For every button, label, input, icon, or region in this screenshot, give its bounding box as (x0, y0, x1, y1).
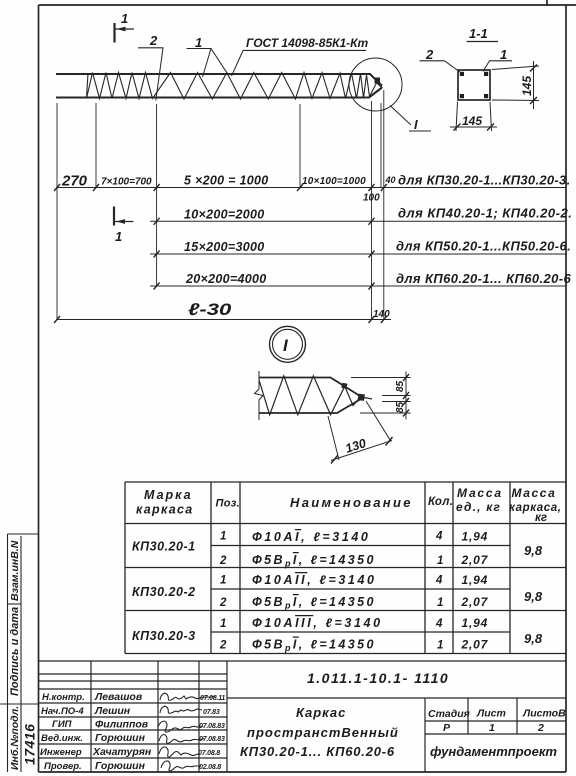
svg-text:17416: 17416 (22, 724, 38, 765)
svg-text:Хачатурян: Хачатурян (92, 746, 152, 758)
svg-text:Ф10АIII, ℓ=3140: Ф10АIII, ℓ=3140 (252, 616, 383, 630)
detail I small weld square on taper (341, 383, 347, 389)
svg-text:ГИП: ГИП (52, 719, 72, 730)
svg-text:1: 1 (195, 35, 202, 50)
svg-text:1: 1 (220, 618, 226, 630)
svg-text:ℓ-30: ℓ-30 (188, 300, 231, 319)
svg-text:Ф5ВрI, ℓ=14350: Ф5ВрI, ℓ=14350 (252, 595, 376, 611)
svg-text:для КП40.20-1; КП40.20-2.: для КП40.20-1; КП40.20-2. (398, 206, 572, 221)
svg-text:4: 4 (435, 575, 443, 587)
svg-text:10×100=1000: 10×100=1000 (302, 176, 366, 187)
svg-text:2: 2 (219, 597, 227, 609)
svg-text:1: 1 (437, 555, 443, 567)
svg-text:145: 145 (520, 76, 534, 96)
svg-text:Подпись и дата: Подпись и дата (9, 607, 21, 696)
overall length dimension line L-30 (57, 319, 391, 321)
svg-text:1: 1 (220, 575, 226, 587)
svg-text:40: 40 (385, 175, 396, 185)
svg-text:пространстВенный: пространстВенный (247, 725, 399, 740)
svg-text:ЛистоВ: ЛистоВ (522, 708, 566, 720)
svg-text:Лист: Лист (476, 708, 506, 720)
spiral hook tip weld blob (375, 78, 381, 84)
svg-text:I: I (414, 117, 418, 132)
section cut mark 1 (top) (115, 23, 135, 43)
svg-text:Масса: Масса (512, 486, 557, 500)
svg-text:Ф10АII, ℓ=3140: Ф10АII, ℓ=3140 (252, 573, 377, 587)
materials table grid (125, 482, 566, 654)
svg-text:1: 1 (115, 229, 122, 244)
svg-text:1: 1 (437, 640, 443, 652)
svg-text:9,8: 9,8 (524, 589, 543, 604)
svg-text:2: 2 (149, 33, 158, 48)
corner bars (dots) (460, 72, 488, 98)
title block grid (39, 661, 567, 772)
svg-text:для КП50.20-1...КП50.20-6.: для КП50.20-1...КП50.20-6. (396, 239, 571, 254)
detail I dims 85/85 (351, 372, 411, 420)
bottom chord bar (56, 88, 382, 98)
svg-text:Н.контр.: Н.контр. (42, 692, 85, 703)
svg-text:15×200=3000: 15×200=3000 (184, 240, 264, 254)
svg-text:07.08.83: 07.08.83 (199, 723, 225, 730)
svg-text:1: 1 (489, 722, 495, 734)
svg-text:Ф5ВрI, ℓ=14350: Ф5ВрI, ℓ=14350 (252, 638, 376, 654)
svg-text:7×100=700: 7×100=700 (101, 177, 152, 188)
svg-text:КП30.20-3: КП30.20-3 (132, 629, 196, 643)
svg-text:Левашов: Левашов (94, 691, 143, 703)
spiral zigzag (87, 73, 378, 100)
svg-text:кг: кг (535, 512, 547, 524)
detail I bottom chord (259, 400, 360, 414)
svg-text:1: 1 (500, 47, 507, 62)
detail circle I around cage end (349, 58, 402, 111)
svg-text:145: 145 (462, 114, 482, 128)
top chord bar (56, 74, 382, 86)
svg-text:07.08.8: 07.08.8 (198, 750, 220, 757)
svg-text:1,94: 1,94 (462, 530, 489, 544)
svg-text:10×200=2000: 10×200=2000 (184, 208, 264, 222)
svg-text:2: 2 (425, 47, 434, 62)
svg-text:2: 2 (537, 722, 544, 734)
svg-text:Нач.ПО-4: Нач.ПО-4 (41, 706, 84, 717)
svg-text:Р: Р (443, 722, 451, 734)
svg-text:1: 1 (220, 531, 226, 543)
svg-text:Взам.инВ.N: Взам.инВ.N (9, 540, 21, 601)
svg-text:4: 4 (435, 618, 443, 630)
svg-text:07.08.11: 07.08.11 (200, 695, 225, 702)
dimension row 1 line (57, 187, 566, 189)
svg-text:Кол.: Кол. (428, 496, 453, 508)
svg-text:ГОСТ 14098-85К1-Кт: ГОСТ 14098-85К1-Кт (246, 36, 369, 50)
detail I spiral (259, 376, 360, 415)
svg-text:2,07: 2,07 (461, 595, 489, 609)
svg-text:270: 270 (61, 173, 88, 190)
section square outline (458, 70, 490, 100)
signatures squiggles (158, 693, 215, 771)
svg-text:КП30.20-1: КП30.20-1 (132, 540, 196, 554)
svg-text:Поз.: Поз. (216, 498, 241, 510)
svg-text:85: 85 (395, 401, 406, 413)
dimension row 3 line (150, 253, 566, 255)
svg-text:Масса: Масса (457, 486, 503, 500)
svg-text:2,07: 2,07 (461, 638, 489, 652)
svg-text:Наименование: Наименование (290, 495, 413, 510)
svg-text:Горюшин: Горюшин (95, 732, 146, 744)
leader to detail label I (390, 106, 411, 126)
svg-text:для КП60.20-1... КП60.20-6: для КП60.20-1... КП60.20-6 (396, 271, 571, 286)
svg-text:02.08.8: 02.08.8 (199, 764, 221, 771)
svg-text:Инб.№подл.: Инб.№подл. (9, 706, 21, 770)
svg-text:Провер.: Провер. (44, 761, 82, 772)
svg-text:2: 2 (219, 555, 227, 567)
detail I title circle (270, 326, 306, 362)
svg-text:КП30.20-1... КП60.20-6: КП30.20-1... КП60.20-6 (240, 744, 395, 759)
svg-text:фундаментпроект: фундаментпроект (430, 744, 557, 759)
svg-text:100: 100 (363, 193, 380, 204)
svg-text:07.08.83: 07.08.83 (199, 736, 225, 743)
svg-text:ед., кг: ед., кг (456, 500, 501, 514)
dimension 145 right of section (492, 61, 539, 109)
svg-text:07.83: 07.83 (203, 709, 220, 716)
svg-text:Марка: Марка (144, 488, 193, 502)
svg-text:каркаса: каркаса (136, 503, 194, 517)
svg-text:1.011.1-10.1- 1110: 1.011.1-10.1- 1110 (307, 670, 449, 686)
svg-text:9,8: 9,8 (524, 543, 543, 558)
svg-text:2,07: 2,07 (461, 553, 489, 567)
svg-text:20×200=4000: 20×200=4000 (185, 272, 266, 286)
svg-text:Инженер: Инженер (40, 747, 82, 758)
svg-text:Вед.инж.: Вед.инж. (41, 733, 83, 744)
svg-text:9,8: 9,8 (524, 631, 543, 646)
detail I drawing: break line (255, 371, 264, 420)
cage elevation drawing (56, 58, 411, 125)
detail I tip weld square (358, 394, 365, 401)
svg-text:2: 2 (219, 640, 227, 652)
svg-text:140: 140 (373, 309, 390, 320)
svg-text:Стадия: Стадия (428, 708, 470, 720)
dimension row 4 line (150, 285, 566, 287)
svg-text:Ф5ВрI, ℓ=14350: Ф5ВрI, ℓ=14350 (252, 553, 376, 569)
svg-text:5 ×200 = 1000: 5 ×200 = 1000 (184, 174, 269, 188)
svg-text:4: 4 (435, 531, 443, 543)
left attachment strip (0, 534, 39, 772)
detail I hook end (364, 398, 372, 400)
svg-text:85: 85 (395, 380, 406, 392)
section cut mark 1 (bottom) (114, 207, 134, 226)
svg-text:КП30.20-2: КП30.20-2 (132, 585, 196, 599)
svg-text:для КП30.20-1...КП30.20-3.: для КП30.20-1...КП30.20-3. (398, 173, 571, 188)
detail I dim 130 (328, 401, 393, 464)
svg-text:Филиппов: Филиппов (95, 719, 149, 731)
extension lines below cage (57, 90, 384, 320)
svg-text:Лешин: Лешин (94, 705, 131, 717)
dimension 145 bottom of section (450, 102, 497, 131)
svg-text:Горюшин: Горюшин (95, 760, 146, 772)
svg-text:1: 1 (121, 11, 128, 26)
svg-text:1,94: 1,94 (462, 616, 489, 630)
ticks row 1 (54, 184, 387, 191)
dimension row 2 line (150, 220, 566, 222)
svg-text:1: 1 (437, 597, 443, 609)
svg-text:Ф10АI, ℓ=3140: Ф10АI, ℓ=3140 (252, 530, 370, 544)
svg-text:1,94: 1,94 (462, 573, 489, 587)
detail I top chord (259, 378, 360, 397)
svg-text:Каркас: Каркас (296, 705, 346, 720)
svg-text:1-1: 1-1 (469, 26, 488, 41)
